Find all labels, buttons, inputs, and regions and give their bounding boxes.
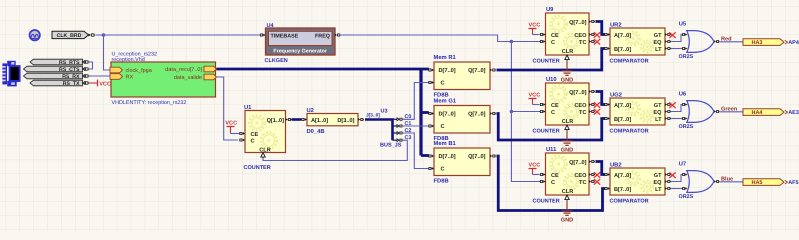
pin connector UR2 A	[604, 33, 610, 36]
svg-text:RS_RTS: RS_RTS	[59, 60, 80, 66]
CLR arrow U9	[565, 55, 569, 60]
bus tap C2	[393, 132, 399, 134]
svg-text:RS_CTS: RS_CTS	[59, 67, 80, 73]
svg-text:C: C	[441, 124, 445, 130]
svg-text:GT: GT	[654, 33, 662, 39]
ground GND U10	[562, 141, 573, 146]
svg-text:VCC: VCC	[225, 120, 237, 126]
svg-text:UB2: UB2	[610, 162, 622, 169]
logo AA circle	[30, 30, 40, 40]
svg-text:Frequency Generator: Frequency Generator	[273, 48, 327, 54]
bus tap C3	[393, 139, 399, 141]
svg-text:CEO: CEO	[574, 103, 587, 109]
frequency generator U4 CLKGEN	[266, 28, 336, 55]
wire UR2 LT to U5	[671, 48, 682, 50]
bus Mem R1 Q to UR2 B	[497, 49, 605, 71]
svg-text:Blue: Blue	[721, 175, 733, 182]
svg-text:U9: U9	[546, 6, 554, 13]
pin connector U7 input 1	[682, 173, 688, 176]
pin connector UG2 A	[604, 103, 610, 106]
CLR arrow U1	[261, 153, 265, 158]
bus branch to Mem B1 D	[421, 154, 429, 157]
svg-text:CLR: CLR	[259, 147, 271, 153]
pin connector U6 input 2	[682, 117, 688, 120]
svg-text:GT: GT	[654, 173, 662, 179]
svg-text:C: C	[441, 81, 445, 87]
pin connector U10 TC (unconnected)	[589, 110, 595, 113]
pin connector Mem R1 D	[428, 69, 434, 72]
wire RS_RTS to RS_CTS loopback	[90, 62, 93, 69]
svg-text:CE: CE	[551, 173, 559, 179]
svg-text:COUNTER: COUNTER	[533, 129, 560, 135]
pin RX	[110, 74, 123, 80]
svg-text:CEO: CEO	[574, 33, 587, 39]
svg-text:D[7..0]: D[7..0]	[439, 153, 456, 160]
pin connector U5 output	[714, 40, 720, 43]
bus U11 Q to UB2 A	[596, 162, 605, 175]
svg-text:OR2S: OR2S	[679, 124, 694, 130]
pin connector U7 output	[714, 180, 720, 183]
svg-text:VCC: VCC	[529, 22, 541, 28]
svg-text:Q[1..0]: Q[1..0]	[267, 117, 285, 124]
svg-text:D[7..0]: D[7..0]	[439, 111, 456, 118]
svg-text:Q[7..0]: Q[7..0]	[569, 19, 587, 26]
pin connector U11 Q	[589, 160, 595, 163]
wire clock vertical to U10/U11 C	[511, 42, 540, 182]
wire U11 CLR to GND	[566, 201, 568, 210]
wire C2 to Mem B1 C	[403, 133, 429, 169]
svg-text:COUNTER: COUNTER	[533, 199, 560, 205]
comparator UB2	[610, 168, 665, 195]
pin connector UB2 GT (unconnected)	[665, 173, 671, 176]
svg-text:B[7..0]: B[7..0]	[614, 186, 631, 193]
or-gate U7 OR2S	[687, 171, 714, 193]
svg-text:A[7..0]: A[7..0]	[614, 102, 631, 109]
svg-text:UG2: UG2	[610, 92, 622, 99]
pin connector U1 Q	[286, 118, 292, 121]
svg-text:Mem R1: Mem R1	[434, 55, 457, 61]
terminal RS_CTS	[24, 66, 83, 72]
DB9 serial connector J1	[2, 61, 19, 87]
pin connector UG2 EQ	[665, 110, 671, 113]
svg-text:data_recu[7..0]: data_recu[7..0]	[165, 67, 202, 73]
svg-text:HA3: HA3	[751, 40, 762, 46]
svg-text:LT: LT	[655, 47, 662, 53]
pin connector RS_RX	[83, 75, 90, 78]
pin connector U6 input 1	[682, 103, 688, 106]
pin connector RS_RTS	[83, 61, 90, 64]
svg-text:Mem G1: Mem G1	[434, 98, 457, 105]
pin connector UG2 LT	[665, 117, 671, 120]
pin connector UR2 EQ	[665, 40, 671, 43]
pin connector U1 CE	[239, 132, 245, 135]
svg-text:U11: U11	[546, 147, 557, 153]
pin connector U10 C	[540, 110, 546, 113]
svg-text:U7: U7	[679, 162, 686, 168]
pin connector U9 CE	[540, 33, 546, 36]
junction on CLK_BRD net	[102, 33, 106, 37]
register Mem G1 FD8B	[434, 106, 490, 134]
wire Green net	[720, 111, 743, 113]
svg-text:U5: U5	[679, 22, 687, 28]
ground GND U9	[562, 71, 573, 76]
svg-text:U2: U2	[307, 107, 314, 114]
pin connector UB2 LT	[665, 187, 671, 190]
svg-text:Q[7..0]: Q[7..0]	[468, 153, 486, 160]
comparator UR2	[610, 28, 665, 55]
bus junction at Mem column	[419, 69, 422, 156]
svg-text:VCC: VCC	[99, 82, 111, 88]
pin connector UR2 B	[604, 47, 610, 50]
svg-text:D0_4B: D0_4B	[307, 128, 325, 135]
svg-text:VHDLENTITY: reception_rs232: VHDLENTITY: reception_rs232	[112, 100, 187, 106]
svg-text:CE: CE	[251, 132, 259, 138]
svg-text:VCC: VCC	[529, 162, 541, 168]
svg-text:J[3..0]: J[3..0]	[366, 112, 380, 118]
pin data_recu[7..0]	[204, 66, 217, 72]
svg-text:U3: U3	[381, 109, 388, 115]
svg-text:HA4: HA4	[751, 110, 763, 116]
bus tap C0	[393, 118, 399, 120]
counter U1	[245, 111, 286, 153]
pin connector UB2 A	[604, 173, 610, 176]
svg-text:FREQ: FREQ	[315, 34, 330, 40]
svg-text:B[7..0]: B[7..0]	[614, 116, 631, 123]
svg-text:TC: TC	[579, 110, 586, 116]
bus J[3..0] from U2 to splitter U3	[365, 120, 393, 141]
pin connector CLK_BRD	[89, 34, 96, 37]
svg-text:GT: GT	[654, 103, 662, 109]
pin connector U7 input 2	[682, 187, 688, 190]
wire UB2 LT to U7	[671, 188, 682, 190]
or-gate U6 OR2S	[687, 101, 714, 123]
terminal RS_RTS	[30, 59, 83, 65]
pin connector Mem B1 D	[428, 155, 434, 158]
svg-text:EQ: EQ	[653, 180, 662, 186]
wire C3 to U1 CLR	[263, 140, 407, 160]
counter U10	[546, 83, 590, 125]
svg-text:U4: U4	[267, 23, 275, 29]
pin connector U9 CEO (unconnected)	[589, 33, 595, 36]
svg-text:A[7..0]: A[7..0]	[614, 32, 631, 39]
svg-text:C: C	[441, 167, 445, 173]
svg-text:clock_fpga: clock_fpga	[126, 68, 153, 74]
svg-text:A[7..0]: A[7..0]	[614, 172, 631, 179]
svg-text:data_valide: data_valide	[174, 75, 202, 81]
svg-text:Q[7..0]: Q[7..0]	[569, 159, 587, 166]
pin connector U10 Q	[589, 90, 595, 93]
svg-text:RX: RX	[126, 75, 134, 81]
wire UG2 EQ to U6	[671, 105, 682, 112]
svg-text:Q[7..0]: Q[7..0]	[569, 89, 587, 96]
terminal HA4	[743, 109, 784, 116]
svg-text:OR2S: OR2S	[679, 194, 694, 200]
pin connector U5 input 2	[682, 47, 688, 50]
svg-text:EQ: EQ	[653, 40, 662, 46]
terminal RS_TX	[30, 80, 83, 86]
svg-text:U6: U6	[679, 91, 687, 98]
svg-text:COUNTER: COUNTER	[533, 59, 560, 65]
pin connector U9 C	[540, 40, 546, 43]
svg-text:COUNTER: COUNTER	[244, 165, 271, 171]
svg-text:COMPARATOR: COMPARATOR	[610, 199, 649, 205]
svg-text:TIMEBASE: TIMEBASE	[271, 34, 299, 40]
wire C1 to Mem G1 C	[403, 125, 429, 127]
pin connector UB2 B	[604, 187, 610, 190]
svg-text:D[3..0]: D[3..0]	[337, 117, 354, 124]
svg-text:CLR: CLR	[562, 119, 574, 125]
svg-text:Red: Red	[721, 35, 732, 42]
pin connector U9 TC (unconnected)	[589, 40, 595, 43]
pin AE3	[785, 110, 788, 114]
register Mem R1 FD8B	[434, 62, 490, 90]
pin connector U10 CE	[540, 103, 546, 106]
svg-text:CE: CE	[551, 33, 559, 39]
bus U1 Q to U2 A	[292, 118, 302, 121]
or-gate U5 OR2S	[687, 31, 714, 53]
svg-text:U1: U1	[244, 105, 252, 111]
terminal HA5	[743, 179, 784, 186]
pin connector U4 input	[260, 34, 266, 37]
pin connector RS_TX	[83, 82, 90, 85]
pin connector Mem G1 C	[428, 125, 434, 128]
svg-text:CLKGEN: CLKGEN	[265, 58, 288, 64]
wire UR2 EQ to U5	[671, 35, 682, 42]
bus Mem G1 Q to UG2 B	[497, 114, 605, 141]
comparator UG2	[610, 98, 665, 125]
svg-text:HA5: HA5	[751, 180, 762, 186]
pin connector U11 CEO (unconnected)	[589, 173, 595, 176]
svg-text:RS_TX: RS_TX	[63, 81, 80, 87]
wire C0 to Mem R1 C	[403, 83, 429, 120]
terminal CLK_BRD	[52, 31, 89, 38]
svg-text:Mem B1: Mem B1	[434, 141, 457, 147]
svg-text:CLR: CLR	[562, 49, 574, 55]
pin connector UB2 EQ	[665, 180, 671, 183]
svg-text:EQ: EQ	[653, 110, 662, 116]
bus branch to Mem G1 D	[421, 111, 429, 114]
svg-text:FD8B: FD8B	[434, 177, 449, 184]
pin connector UG2 GT (unconnected)	[665, 103, 671, 106]
bus tap C1	[393, 125, 399, 127]
CLR arrow U11	[565, 195, 569, 200]
pin connector U5 input 1	[682, 33, 688, 36]
pin connector Mem G1 Q	[490, 112, 496, 115]
wire UG2 LT to U6	[671, 118, 682, 120]
svg-text:Q[7..0]: Q[7..0]	[468, 67, 486, 74]
bus U10 Q to UG2 A	[596, 92, 605, 105]
pin connector U11 C	[540, 180, 546, 183]
bus data_recu to Mem D inputs	[217, 68, 429, 71]
svg-text:U10: U10	[546, 76, 557, 83]
pin connector U1 C	[239, 139, 245, 142]
bus Mem B1 Q to UB2 B	[497, 156, 605, 211]
wire clock branch to U10 C	[511, 111, 540, 113]
junction clock at U10 C	[510, 110, 514, 114]
terminal HA3	[743, 39, 784, 46]
pin connector RS_CTS	[83, 68, 90, 71]
power VCC at RS_TX	[90, 82, 98, 84]
svg-text:TC: TC	[579, 180, 586, 186]
svg-text:VCC: VCC	[529, 92, 541, 98]
svg-text:AF5: AF5	[788, 180, 798, 186]
CLR arrow U10	[565, 125, 569, 130]
svg-text:GND: GND	[561, 217, 573, 223]
wire CLK_BRD down to clock_fpga	[104, 35, 111, 70]
pin connector U11 CE	[540, 173, 546, 176]
svg-text:AP4: AP4	[788, 40, 799, 46]
svg-text:CLK_BRD: CLK_BRD	[57, 33, 82, 39]
VHDL entity U_reception_rs232	[111, 62, 216, 97]
svg-text:LT: LT	[655, 117, 662, 123]
pin connector U2 D	[358, 118, 364, 121]
svg-text:CE: CE	[551, 103, 559, 109]
pin connector Mem B1 Q	[490, 155, 496, 158]
register Mem B1 FD8B	[434, 148, 490, 176]
wire Red net	[720, 41, 743, 43]
svg-text:C: C	[551, 110, 555, 116]
pin connector U6 output	[714, 110, 720, 113]
svg-text:Q[7..0]: Q[7..0]	[468, 111, 486, 118]
pin connector UR2 LT	[665, 47, 671, 50]
decoder U2 D0_4B	[307, 114, 358, 126]
svg-text:OR2S: OR2S	[679, 54, 694, 60]
svg-text:C: C	[251, 139, 255, 145]
pin clock_fpga	[110, 67, 123, 73]
wire data_valide to U1 C	[217, 77, 239, 140]
pin connector U4 FREQ output	[335, 34, 341, 37]
wire CLK_BRD to U4	[96, 34, 260, 36]
ground GND U11	[562, 211, 573, 216]
svg-text:B[7..0]: B[7..0]	[614, 46, 631, 53]
wire U9 CLR to GND	[566, 61, 568, 70]
pin connector Mem R1 Q	[490, 69, 496, 72]
pin connector Mem R1 C	[428, 81, 434, 84]
pin connector UG2 B	[604, 117, 610, 120]
svg-text:COMPARATOR: COMPARATOR	[610, 59, 649, 65]
svg-text:Green: Green	[721, 106, 738, 112]
svg-text:UR2: UR2	[610, 22, 622, 29]
wire UB2 EQ to U7	[671, 175, 682, 182]
pin AF5	[785, 180, 788, 184]
pin data_valide	[204, 74, 217, 80]
svg-text:reception.Vhd: reception.Vhd	[112, 57, 145, 63]
pin connector UR2 GT (unconnected)	[665, 33, 671, 36]
svg-text:LT: LT	[655, 187, 662, 193]
svg-text:C: C	[551, 180, 555, 186]
svg-text:C: C	[551, 40, 555, 46]
svg-text:CEO: CEO	[574, 173, 587, 179]
pin connector Mem B1 C	[428, 167, 434, 170]
svg-text:A[1..0]: A[1..0]	[311, 117, 328, 124]
svg-text:COMPARATOR: COMPARATOR	[610, 129, 649, 135]
pin connector U9 Q	[589, 20, 595, 23]
pin connector U2 A	[301, 118, 307, 121]
svg-text:AE3: AE3	[788, 110, 799, 116]
pin connector Mem G1 D	[428, 112, 434, 115]
bus U9 Q to UR2 A	[596, 22, 605, 35]
pin connector U10 CEO (unconnected)	[589, 103, 595, 106]
svg-text:RS_RX: RS_RX	[62, 74, 80, 80]
svg-text:D[7..0]: D[7..0]	[439, 67, 456, 74]
counter U11	[546, 153, 590, 195]
counter U9	[546, 13, 590, 55]
junction clock at U9 C	[510, 40, 514, 44]
svg-text:CLR: CLR	[562, 189, 574, 195]
wire Blue net	[720, 181, 743, 183]
terminal RS_RX	[24, 73, 83, 79]
wire FREQ to U9 C	[341, 35, 541, 42]
svg-text:BUS_JS: BUS_JS	[380, 142, 402, 148]
pin connector U11 TC (unconnected)	[589, 180, 595, 183]
svg-text:FD8B: FD8B	[434, 91, 449, 98]
wire U10 CLR to GND	[566, 131, 568, 140]
pin AP4	[785, 40, 788, 44]
svg-text:TC: TC	[579, 40, 586, 46]
wire RS_RX to RX pin	[90, 75, 111, 77]
